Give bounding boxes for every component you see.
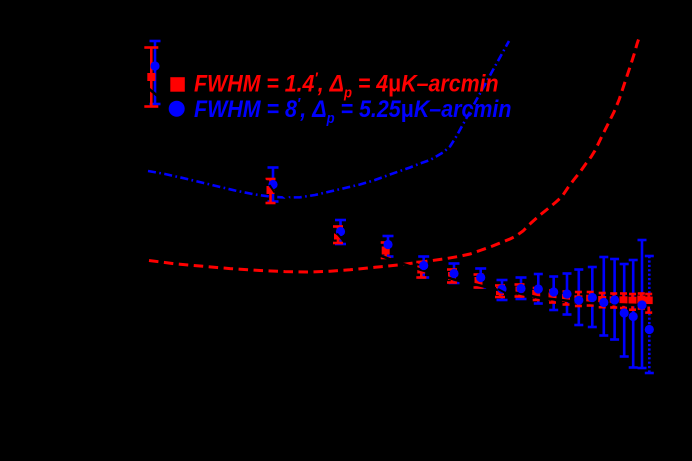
red error bar P14 bbox=[587, 292, 594, 306]
red error bar P6 bbox=[447, 270, 457, 283]
blue error bar P7 bbox=[475, 269, 486, 288]
blue error bar P9 bbox=[516, 278, 527, 300]
blue error bar P5 bbox=[418, 257, 429, 278]
blue error bar P8 bbox=[497, 280, 508, 300]
blue error bar P13 bbox=[574, 270, 583, 326]
black fiducial model curve (invisible on black bg, slices markers) bbox=[148, 88, 657, 306]
blue error bar P10 bbox=[534, 274, 543, 304]
red error bar P11 bbox=[549, 291, 556, 303]
blue circle marker P16 bbox=[610, 295, 619, 304]
blue circle marker P10 bbox=[534, 284, 543, 293]
blue error bar P20 bbox=[645, 256, 654, 373]
red error bar P3 bbox=[333, 227, 343, 244]
blue circle marker P3 bbox=[336, 227, 345, 236]
red square marker P12 bbox=[562, 294, 570, 302]
blue dash-dot noise curve (FWHM=8') bbox=[148, 41, 509, 198]
blue circle marker P13 bbox=[574, 296, 583, 305]
blue circle marker P17 bbox=[620, 308, 629, 317]
blue error bar P15 bbox=[599, 257, 608, 336]
legend red square bbox=[170, 77, 185, 92]
red square marker P1 bbox=[147, 73, 155, 81]
blue error bar P17 bbox=[620, 264, 629, 357]
blue error bar P2 bbox=[268, 168, 279, 202]
blue error bar P18 bbox=[629, 260, 638, 368]
blue error bar P4 bbox=[383, 236, 394, 257]
red error bar P16 bbox=[610, 294, 617, 308]
red square marker P8 bbox=[496, 287, 504, 295]
blue circle marker P19 bbox=[637, 300, 646, 309]
blue circle marker P4 bbox=[383, 240, 392, 249]
legend line 2 blue text bbox=[194, 95, 511, 127]
blue circle marker P2 bbox=[268, 180, 277, 189]
red error bar P19 bbox=[638, 294, 645, 309]
blue error bar P12 bbox=[563, 274, 572, 315]
blue error bar P11 bbox=[549, 277, 558, 311]
red square marker P5 bbox=[417, 266, 425, 274]
red square marker P16 bbox=[610, 296, 618, 304]
blue error bar P1 bbox=[150, 41, 161, 104]
red square marker P18 bbox=[629, 297, 637, 305]
red error bar P1 bbox=[144, 48, 158, 107]
red error bar P8 bbox=[495, 286, 505, 298]
blue circle marker P18 bbox=[629, 312, 638, 321]
red square marker P9 bbox=[516, 287, 524, 295]
red error bar P18 bbox=[629, 294, 636, 310]
legend blue circle bbox=[169, 101, 185, 117]
red square markers bbox=[147, 73, 652, 305]
red square marker P13 bbox=[574, 295, 582, 303]
blue circle marker P6 bbox=[449, 269, 458, 278]
blue circle marker P8 bbox=[497, 284, 506, 293]
red square marker P11 bbox=[549, 293, 557, 301]
blue circle marker P9 bbox=[516, 284, 525, 293]
blue error bar P6 bbox=[449, 264, 460, 284]
legend line 1 red text bbox=[194, 69, 499, 101]
blue circle marker P5 bbox=[419, 261, 428, 270]
blue error bar P19 bbox=[638, 240, 647, 368]
blue circle marker P20 bbox=[645, 325, 654, 334]
blue error bar P14 bbox=[588, 267, 597, 327]
red square marker P10 bbox=[532, 290, 540, 298]
red error bar P13 bbox=[575, 292, 582, 306]
red square marker P20 bbox=[645, 297, 653, 305]
red error bar P15 bbox=[599, 293, 606, 307]
svg-text:FWHM = 8′, Δp = 5.25μK–arcmin: FWHM = 8′, Δp = 5.25μK–arcmin bbox=[194, 95, 511, 127]
blue circle marker P11 bbox=[549, 287, 558, 296]
red square marker P14 bbox=[586, 295, 594, 303]
red error bar P2 bbox=[266, 179, 276, 203]
blue error bar P3 bbox=[335, 220, 346, 244]
red error bar P7 bbox=[474, 275, 484, 288]
red error bar P20 bbox=[645, 294, 652, 313]
blue circle marker P15 bbox=[599, 298, 608, 307]
blue circle marker P1 bbox=[150, 61, 159, 70]
red error bar P5 bbox=[416, 262, 426, 278]
red square marker P17 bbox=[620, 296, 628, 304]
blue circle marker P12 bbox=[562, 289, 571, 298]
blue circle marker P14 bbox=[588, 293, 597, 302]
blue circle marker P7 bbox=[476, 273, 485, 282]
red square marker P6 bbox=[448, 272, 456, 280]
red square marker P2 bbox=[267, 186, 275, 194]
blue data error bars bbox=[150, 41, 654, 373]
black slash overlays on circles P2 P3 P8 bbox=[270, 185, 507, 294]
red square marker P7 bbox=[475, 277, 483, 285]
red error bar P9 bbox=[515, 285, 525, 297]
red error bar P17 bbox=[620, 294, 627, 309]
red error bar P12 bbox=[563, 292, 570, 305]
red error bar P4 bbox=[381, 243, 391, 259]
red square marker P19 bbox=[637, 296, 645, 304]
red square marker P4 bbox=[382, 247, 390, 255]
red error bar P10 bbox=[533, 288, 540, 300]
blue circle markers bbox=[150, 61, 654, 334]
red square marker P3 bbox=[334, 232, 342, 240]
blue error bar P16 bbox=[610, 259, 619, 340]
red data error bars bbox=[144, 48, 652, 313]
red square marker P15 bbox=[598, 296, 606, 304]
red dashed noise curve (FWHM=1.4') bbox=[149, 40, 639, 273]
